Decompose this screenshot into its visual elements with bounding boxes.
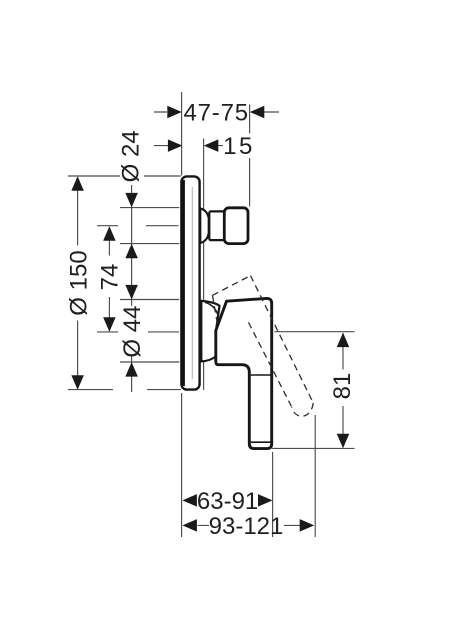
component handle base detail arc: [205, 302, 218, 314]
svg-text:63-91: 63-91: [197, 488, 258, 515]
wire dashed left edge: [247, 319, 292, 407]
svg-text:Ø 44: Ø 44: [119, 306, 146, 358]
wire ext knob top: [120, 207, 179, 209]
svg-text:93-121: 93-121: [209, 513, 284, 540]
component handle body and lever: [216, 298, 272, 448]
component dashed alternate handle position: [213, 276, 314, 417]
component plate inner highlight: [191, 187, 193, 379]
arrow D44 bottom: [125, 362, 138, 377]
wire ext D44 bottom: [120, 361, 179, 363]
svg-text:74: 74: [96, 264, 123, 291]
wire dashed right edge: [251, 276, 314, 403]
wire ext D150 bottom: [68, 389, 181, 391]
arrow 74 bottom: [103, 317, 116, 332]
arrow 93-121 right: [300, 519, 315, 532]
wire 63-91 right ext: [272, 452, 274, 537]
arrow 47-75 right: [250, 106, 264, 119]
wire ext D44 top: [120, 299, 179, 301]
wire 81 dim line: [342, 333, 344, 448]
arrow 74 top: [103, 226, 116, 241]
arrow D24 top: [125, 193, 138, 208]
component plate left edge thick: [181, 180, 184, 386]
arrow 47-75 left: [167, 106, 182, 119]
wire 47-75 right ext: [249, 105, 251, 207]
arrow D150 top: [71, 176, 84, 191]
wire dashed tip cap: [292, 403, 314, 416]
wire dim 15 tails: [154, 145, 223, 147]
svg-text:81: 81: [329, 373, 356, 400]
arrow 81 bottom: [337, 434, 350, 449]
arrow 15 right: [204, 139, 219, 152]
wire ref line x203: [203, 139, 205, 391]
svg-text:Ø 24: Ø 24: [118, 130, 145, 182]
component escutcheon plate: [181, 176, 199, 389]
arrow 63-91 left: [182, 494, 197, 507]
wire ext knob bottom: [120, 243, 179, 245]
wire dashed top edge: [213, 276, 251, 296]
wire dim 47-75 tails: [154, 111, 279, 113]
wire 74 dim line: [108, 227, 110, 331]
wire D150 dim line: [77, 177, 79, 389]
wire 93-121 right ext: [314, 415, 316, 537]
component knob cap: [224, 208, 248, 244]
svg-text:15: 15: [223, 133, 255, 160]
wire left ext vertical (plate face): [181, 92, 183, 537]
component knob mid cylinder: [209, 211, 224, 240]
node handle centerline / 81 top ext: [97, 331, 355, 333]
svg-text:Ø 150: Ø 150: [65, 250, 92, 315]
arrow 93-121 left: [182, 519, 197, 532]
wire D24/D44 dim line: [131, 185, 133, 392]
wire ref line under knob drawn before fixture: [181, 176, 271, 448]
wire dashed body left edge: [213, 295, 219, 327]
component handle base cone: [201, 301, 219, 362]
component lever cross line lower: [251, 441, 271, 443]
wire ext top of plate (D150 top): [68, 175, 181, 177]
svg-text:47-75: 47-75: [184, 99, 249, 126]
wire 81 bottom ext: [272, 447, 355, 449]
wire 93-121 line bits: [198, 524, 301, 526]
arrow 63-91 right: [258, 494, 273, 507]
arrow 81 top: [337, 333, 350, 348]
component lever cross line upper: [251, 374, 271, 376]
arrow D24 bottom: [125, 244, 138, 258]
arrow D150 bottom: [71, 375, 84, 390]
arrow 15 left: [168, 139, 183, 152]
component knob flare: [200, 208, 208, 243]
node knob centerline: [97, 225, 179, 227]
arrow D44 top: [125, 285, 138, 300]
